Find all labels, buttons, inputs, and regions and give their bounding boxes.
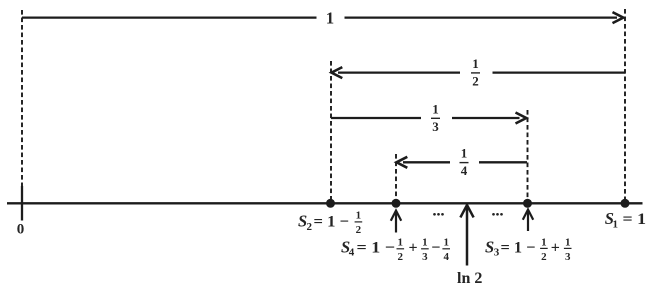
tick at origin 0: [21, 186, 23, 221]
svg-text:1: 1: [613, 218, 619, 230]
svg-text:+: +: [551, 239, 560, 256]
label ln 2: [457, 270, 482, 287]
svg-text:3: 3: [565, 251, 571, 263]
svg-text:3: 3: [432, 119, 439, 134]
ellipsis right of ln2 arrow: [492, 213, 503, 216]
svg-text:S: S: [485, 237, 494, 256]
fraction label 1/3: [431, 101, 440, 133]
dashed line at S1: [624, 9, 626, 200]
svg-text:+: +: [409, 239, 418, 256]
dashed line at S3: [527, 110, 529, 200]
label S4 = 1 - 1/2 + 1/3 - 1/4: [341, 236, 450, 262]
ellipsis left of ln2 arrow: [433, 213, 444, 216]
dashed line at S2: [330, 61, 332, 200]
svg-text:1: 1: [326, 8, 334, 27]
svg-text:= 1 −: = 1 −: [314, 214, 350, 231]
label S2 = 1 - 1/2: [298, 209, 362, 236]
svg-text:2: 2: [398, 251, 404, 263]
svg-text:4: 4: [349, 247, 355, 259]
svg-text:1: 1: [565, 236, 571, 248]
label S1 = 1: [605, 209, 646, 230]
dashed line at S4: [395, 154, 397, 200]
up arrow at S4: [391, 211, 401, 233]
svg-text:4: 4: [443, 251, 449, 263]
svg-text:4: 4: [461, 163, 468, 178]
svg-text:1: 1: [422, 236, 428, 248]
svg-text:2: 2: [472, 74, 479, 89]
point S1 dot: [621, 199, 630, 208]
svg-text:−: −: [431, 239, 440, 256]
label 1 on top arrow: [326, 8, 334, 27]
point S3 dot: [523, 199, 532, 208]
arrow span 1 (0 to S1): [22, 12, 623, 23]
arrow span 1/3 (S2 to S3, pointing right): [331, 113, 526, 124]
svg-text:1: 1: [541, 236, 547, 248]
label S3 = 1 - 1/2 + 1/3: [485, 236, 572, 262]
svg-text:ln 2: ln 2: [457, 270, 482, 287]
svg-text:1: 1: [443, 236, 449, 248]
point S4 dot: [392, 199, 401, 208]
arrow span 1/4 (S3 to S4, pointing left): [397, 157, 528, 168]
svg-text:3: 3: [422, 251, 428, 263]
ln 2 arrow: [460, 205, 473, 266]
svg-text:0: 0: [17, 222, 25, 238]
fraction label 1/2: [471, 56, 480, 89]
svg-text:1: 1: [461, 146, 468, 161]
svg-text:= 1: = 1: [623, 211, 647, 228]
point S2 dot: [326, 199, 335, 208]
svg-text:3: 3: [494, 247, 500, 259]
svg-text:2: 2: [307, 221, 313, 233]
svg-text:1: 1: [356, 209, 362, 221]
svg-text:1: 1: [472, 56, 479, 71]
arrow span 1/2 (S1 to S2, pointing left): [332, 67, 626, 78]
svg-text:1: 1: [398, 236, 404, 248]
number line: [7, 202, 643, 204]
label 0: [17, 222, 25, 238]
svg-text:1: 1: [432, 101, 439, 116]
svg-text:= 1 −: = 1 −: [501, 239, 536, 256]
fraction label 1/4: [460, 146, 469, 179]
svg-text:2: 2: [356, 224, 362, 236]
up arrow at S3: [523, 210, 533, 232]
dashed line at x=0 point: [21, 10, 23, 186]
svg-text:2: 2: [541, 251, 547, 263]
svg-text:= 1 −: = 1 −: [357, 239, 396, 256]
